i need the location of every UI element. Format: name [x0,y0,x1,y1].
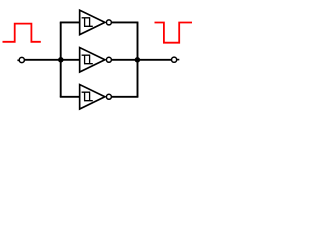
inverter U2 triangle [80,48,105,73]
junction left [58,57,64,63]
wire: right bus vertical [137,22,139,96]
inverter U2 inner symbol [82,55,93,64]
wire: middle branch to U2 input [62,59,80,61]
inverter U3 triangle [80,85,105,110]
input terminal circle [19,57,24,62]
wire: U1 output to right bus [112,21,139,23]
inverter U1 inner symbol [82,18,93,27]
wire: U2 output to right bus [112,59,138,61]
inverter U3 inner symbol [82,92,93,101]
inverter U1 bubble [106,20,111,25]
inverter U1 triangle [80,10,105,35]
output terminal circle [172,57,177,62]
wire: top branch to U1 input [60,21,80,23]
wire: U3 output to right bus [112,96,139,98]
input terminal pin stub [17,59,19,61]
inverter U2 bubble [106,57,111,62]
output waveform icon (red inverted pulse) [155,23,193,43]
wire: left bus vertical [60,22,62,96]
wire: right bus to output terminal [137,59,172,61]
wire: bottom branch to U3 input [60,96,80,98]
input waveform icon (red pulse) [3,24,41,42]
inverter U3 bubble [106,94,111,99]
junction right [135,57,141,63]
output terminal pin stub [177,59,179,61]
wire: input terminal to left bus [25,59,62,61]
